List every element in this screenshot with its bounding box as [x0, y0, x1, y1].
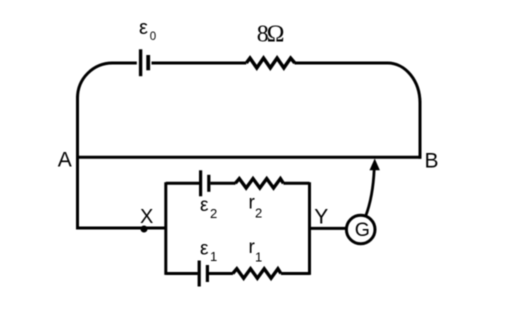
- wire: top wire right segment: [295, 62, 389, 65]
- svg-text:Y: Y: [314, 206, 328, 229]
- wire: jockey arrow shaft (curved): [366, 169, 375, 217]
- resistor r2 (zigzag): [235, 179, 283, 188]
- node X (junction dot): [141, 226, 148, 233]
- wire: from box right edge to galvanometer (node Y): [310, 227, 348, 230]
- svg-text:1: 1: [210, 249, 217, 264]
- battery cell E2: [201, 170, 209, 196]
- wire: left vertical from arc through A down: [76, 96, 79, 230]
- arrowhead of jockey touching line AB: [370, 159, 380, 171]
- wire: top wire between battery and resistor: [152, 62, 247, 65]
- svg-text:2: 2: [255, 205, 262, 220]
- svg-text:X: X: [140, 206, 153, 228]
- wire: top-left arc from A vertical to top wire: [78, 63, 113, 98]
- wire: box top branch left segment: [166, 182, 199, 185]
- wire: box bottom branch left segment: [166, 272, 198, 275]
- wire: box bottom branch right segment: [281, 272, 310, 275]
- wire: potentiometer line A to B: [76, 156, 422, 159]
- wire: right vertical into B: [419, 101, 422, 159]
- svg-text:0: 0: [150, 31, 156, 43]
- wire: box right edge vertical: [308, 182, 311, 275]
- svg-text:A: A: [58, 148, 72, 171]
- wire: box left edge vertical: [164, 182, 167, 275]
- svg-text:ε: ε: [200, 195, 209, 216]
- wire: top wire left segment to battery: [111, 62, 137, 65]
- battery cell E0: [141, 49, 149, 76]
- wire: top-right arc down to B vertical: [388, 63, 420, 103]
- galvanometer G: [346, 215, 375, 244]
- resistor r1 (zigzag): [233, 269, 281, 278]
- svg-text:1: 1: [255, 250, 262, 265]
- svg-text:ε: ε: [200, 239, 209, 260]
- svg-text:ε: ε: [139, 17, 148, 39]
- wire: box top branch between battery and resistor: [210, 182, 235, 185]
- wire: box top branch right segment: [283, 182, 309, 185]
- svg-text:B: B: [425, 149, 439, 172]
- svg-text:Ω: Ω: [267, 22, 285, 48]
- battery cell E1: [199, 261, 207, 287]
- wire: horizontal from left vertical to box left edge (through X): [76, 227, 167, 230]
- resistor 8 ohm (zigzag): [246, 58, 295, 68]
- wire: box bottom branch between battery and resistor: [209, 272, 233, 275]
- svg-text:G: G: [355, 219, 370, 241]
- svg-text:2: 2: [210, 206, 217, 221]
